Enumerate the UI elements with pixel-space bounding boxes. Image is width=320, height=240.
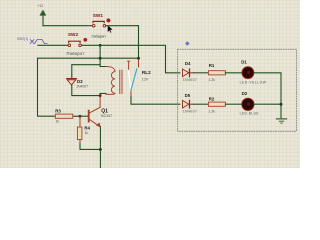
wire left column down to R3 xyxy=(38,58,54,116)
svg-text:1k: 1k xyxy=(56,119,60,123)
mouse cursor xyxy=(108,25,113,33)
svg-text:R4: R4 xyxy=(84,126,90,131)
svg-text:RL2: RL2 xyxy=(142,70,151,75)
svg-text:1.2k: 1.2k xyxy=(208,110,215,114)
relay RL2 xyxy=(106,59,151,96)
svg-text:1N4007: 1N4007 xyxy=(183,110,197,114)
dashed selection box xyxy=(178,49,297,131)
wire R4 bottom to emitter junction xyxy=(80,143,100,149)
svg-text:1k: 1k xyxy=(84,131,88,135)
collector pin xyxy=(99,97,101,108)
node junction coil column xyxy=(99,57,102,60)
svg-text:D5: D5 xyxy=(185,93,191,98)
signal source SW2(1) xyxy=(17,37,47,44)
svg-text:R1: R1 xyxy=(209,63,215,68)
svg-text:Габарит: Габарит xyxy=(92,33,107,38)
svg-text:+12: +12 xyxy=(38,4,44,8)
wire D3 bottom to collector column xyxy=(72,85,100,96)
arm to NO (cyan) xyxy=(131,69,137,90)
arm to NC (idle, pale) xyxy=(128,71,131,91)
svg-text:SW2: SW2 xyxy=(68,32,79,37)
svg-text:LED-YELLOW: LED-YELLOW xyxy=(240,80,267,84)
svg-text:Поворот: Поворот xyxy=(67,51,85,56)
svg-text:R2: R2 xyxy=(209,96,215,101)
svg-text:SW1: SW1 xyxy=(93,13,104,18)
node junction right rail xyxy=(280,103,283,106)
wire relay pole down to LED row 2 xyxy=(131,97,180,105)
NO contact pin xyxy=(138,59,140,67)
svg-text:BC337: BC337 xyxy=(101,114,112,118)
wire coil bottom to collector column xyxy=(100,93,106,96)
NC contact pin xyxy=(128,61,130,69)
background grid xyxy=(0,0,300,168)
wire power to SW1 xyxy=(43,25,92,27)
wire Q1 emitter down xyxy=(99,127,101,168)
svg-text:D3: D3 xyxy=(77,79,83,84)
svg-text:SW2(1): SW2(1) xyxy=(17,37,29,41)
wire horizontal R3 net xyxy=(38,57,139,59)
resistor R1 xyxy=(208,63,225,82)
wire D1 to right rail xyxy=(254,73,281,118)
node junction R4 top xyxy=(79,115,82,118)
wire SW1 to node column xyxy=(106,25,139,27)
resistor R4 (vertical) xyxy=(77,116,90,143)
svg-text:D2: D2 xyxy=(242,91,248,96)
transistor Q1 xyxy=(89,107,113,127)
LED D2 xyxy=(240,91,260,115)
diode D5 xyxy=(183,93,198,113)
svg-text:R3: R3 xyxy=(55,109,61,114)
svg-text:D4: D4 xyxy=(185,61,191,66)
wire D3 top feed from column xyxy=(72,65,100,79)
switch SW1 xyxy=(92,13,111,38)
node junction emitter / R4 xyxy=(99,148,102,151)
diode D4 xyxy=(183,61,198,82)
wire R3 to Q1 base xyxy=(75,115,88,117)
svg-text:D1: D1 xyxy=(241,60,247,65)
switch SW2 xyxy=(67,32,88,56)
wire R2 to D2 xyxy=(225,103,242,105)
core bars xyxy=(120,70,122,93)
resistor R3 xyxy=(54,109,75,124)
svg-text:LED-BLUE: LED-BLUE xyxy=(240,111,260,115)
svg-text:12V: 12V xyxy=(142,77,149,81)
resistor R2 xyxy=(208,96,225,113)
ground xyxy=(276,119,286,123)
coil xyxy=(106,67,115,95)
wire R1 to D1 xyxy=(225,72,242,74)
pole pin xyxy=(130,90,132,97)
wire coil column xyxy=(100,45,106,66)
wire D2 to right rail xyxy=(254,103,281,105)
wire D4 to R1 xyxy=(194,72,208,74)
power +12 symbol xyxy=(38,4,47,26)
node junction relay NO column xyxy=(137,57,140,60)
wire vertical SW1 node down to relay NO contact xyxy=(138,26,140,60)
svg-text:1N4007: 1N4007 xyxy=(183,78,197,82)
node junction coil feed top xyxy=(99,44,102,47)
svg-text:1.2k: 1.2k xyxy=(208,78,215,82)
wire D5 to R2 xyxy=(194,103,208,105)
wire SW2 out long run, corner down to LED row 1 xyxy=(82,45,180,73)
blue diamond handle xyxy=(185,41,190,46)
LED D1 xyxy=(240,60,267,85)
diode D3 xyxy=(67,79,88,89)
wire source to SW2 xyxy=(38,44,68,46)
svg-text:1N4007: 1N4007 xyxy=(76,84,88,88)
node junction D3 bottom xyxy=(99,94,102,97)
